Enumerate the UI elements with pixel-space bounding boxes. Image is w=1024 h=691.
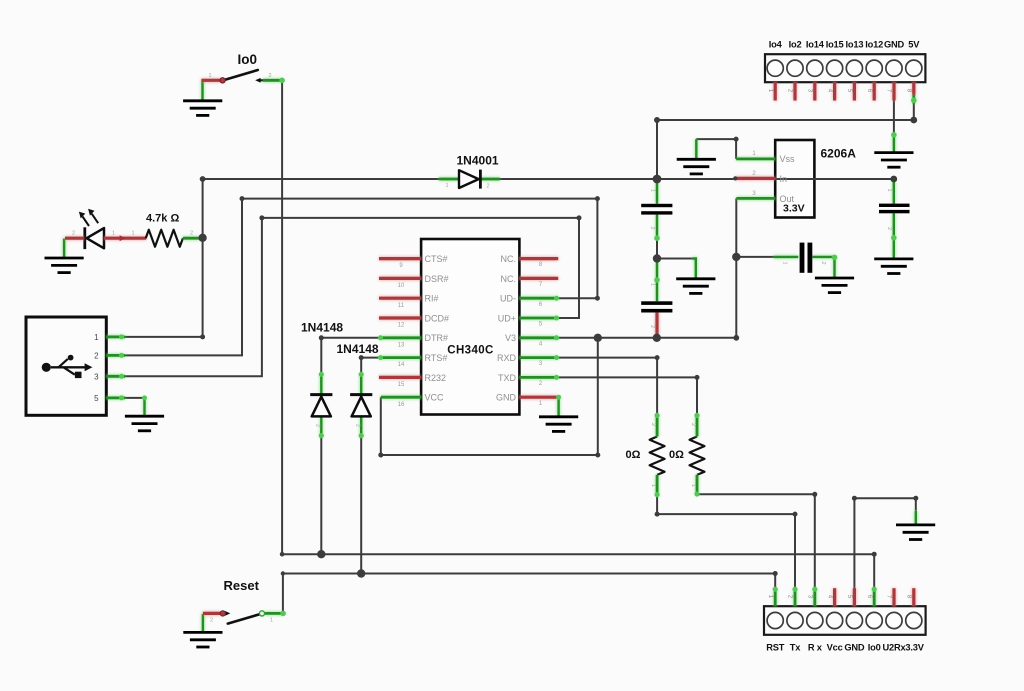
wire bottom GND: header pin5 up to ground symbol [854, 498, 915, 589]
bendpoint UD- corner top [595, 196, 600, 201]
svg-text:1: 1 [767, 595, 774, 599]
USB J2 body [26, 317, 106, 415]
wire RXD to resistor R1 [556, 358, 657, 416]
svg-text:RXD: RXD [497, 353, 517, 363]
wire cap C4 bottom to ground [893, 213, 895, 257]
top header pin numbers 1-8 [767, 89, 913, 93]
junction node IN at C1 top [653, 175, 662, 184]
switch S2 Reset: hinge red dot [220, 611, 225, 616]
green endpoint dots diode D2 legs [319, 372, 324, 439]
svg-text:1: 1 [886, 189, 892, 192]
svg-text:1: 1 [767, 89, 774, 93]
svg-text:RST: RST [766, 643, 785, 653]
switch S2 Reset: lever [228, 614, 262, 624]
wire cap C2 top leg [656, 262, 658, 302]
green endpoint dot C1 leg [654, 235, 660, 241]
wire UD- net: USB pin2 to CH340C UD- [125, 199, 597, 356]
bendpoint GND corner right [913, 496, 918, 501]
svg-text:1: 1 [782, 262, 788, 265]
svg-text:2: 2 [649, 227, 655, 230]
wire TXD to resistor R2 [556, 377, 697, 415]
svg-text:1: 1 [131, 231, 134, 237]
svg-text:Vcc: Vcc [827, 643, 843, 653]
svg-text:2: 2 [886, 227, 892, 230]
label CH340C (IC U1) [447, 345, 494, 357]
svg-text:NC.: NC. [501, 254, 517, 264]
green endpoint dots resistor R2 legs [694, 413, 699, 497]
CH340C U1 left pin legs [379, 259, 421, 398]
svg-text:GND: GND [496, 393, 517, 403]
labels top header J1 pins [769, 40, 921, 50]
svg-text:1N4001: 1N4001 [457, 154, 499, 168]
wire cap C4 top leg [893, 181, 895, 204]
label 1N4148 (diode D3) [337, 342, 379, 356]
diode D3 1N4148: bar and triangle [350, 395, 372, 417]
resistor R2 pin numbers [690, 423, 696, 487]
wire cap C3 left leg [774, 256, 799, 258]
svg-text:0Ω: 0Ω [626, 449, 641, 461]
green endpoint dots CH340C DTR RTS stubs [378, 335, 383, 360]
bendpoint Rx corner [812, 492, 817, 497]
label Io0 (switch S1) [238, 52, 258, 67]
wire VBUS vertical: node to USB pin1 [125, 179, 203, 337]
switch S1 Io0: pin1 red leg [201, 79, 221, 82]
svg-text:In: In [780, 174, 788, 184]
bendpoint R1 bottom corner [655, 512, 660, 517]
svg-text:3.3V: 3.3V [905, 643, 924, 653]
CH340C U1 right pin legs [519, 259, 558, 398]
svg-text:Io14: Io14 [806, 40, 825, 50]
green endpoint dot header pin7 wire [891, 132, 897, 138]
wire Io0 switch pin1 to ground [201, 81, 203, 100]
LED D1: emission arrows [79, 209, 98, 226]
svg-text:2: 2 [486, 184, 489, 190]
USB J2 pin legs (green) [106, 337, 125, 398]
label 3.3V (regulator output) [783, 203, 805, 215]
resistor R1 legs (green) [656, 415, 659, 496]
cap C2 pin numbers [649, 283, 656, 328]
bendpoint VCC loop left [378, 453, 383, 458]
svg-text:7: 7 [886, 89, 893, 93]
green endpoint dot USB pin5 corner [142, 395, 147, 400]
svg-text:8: 8 [906, 595, 913, 599]
svg-text:3: 3 [807, 89, 814, 93]
wire LED pin1 to resistor R3 (red) [104, 235, 146, 241]
svg-text:GND: GND [844, 643, 865, 653]
svg-text:Io0: Io0 [238, 52, 258, 67]
switch S2 Reset: pin2 red leg [203, 612, 221, 615]
svg-text:1: 1 [650, 283, 656, 286]
CH340C right pin numbers 8-1 [539, 262, 543, 407]
wire Reset switch pin2 to ground [202, 614, 204, 632]
svg-text:NC.: NC. [501, 274, 517, 284]
junction IN at cap C4 [890, 176, 897, 183]
label Reset (switch S2) [224, 578, 260, 593]
svg-text:R x: R x [808, 643, 823, 653]
svg-text:16: 16 [398, 402, 405, 408]
green endpoint dot header pin8 [911, 98, 917, 104]
svg-text:RI#: RI# [425, 294, 439, 304]
bendpoint Io0 net left end [280, 552, 285, 557]
svg-text:2: 2 [690, 423, 696, 426]
regulator U2 pin2 In red leg [735, 177, 775, 180]
cap C3 pin numbers [782, 262, 827, 265]
svg-text:5: 5 [846, 89, 853, 93]
regulator U2 pin numbers [752, 151, 756, 197]
resistor R3 pin2 green leg [183, 237, 200, 240]
wire CH340C GND pin to ground [557, 397, 559, 416]
svg-text:2: 2 [190, 231, 193, 237]
bendpoint DTR diode corner [319, 335, 324, 340]
svg-text:2: 2 [650, 423, 656, 426]
bendpoint 3V3 corner lower [733, 335, 739, 341]
green endpoint dots bottom header legs [773, 587, 877, 592]
svg-text:Io12: Io12 [865, 40, 883, 50]
LED D1: triangle [87, 228, 104, 248]
svg-text:2: 2 [315, 424, 321, 427]
cap C2 plates [641, 301, 672, 312]
bendpoint TXD corner [695, 375, 700, 380]
label 4.7k ohm (resistor R3) [146, 213, 179, 225]
header J1 pin leg 8 (5V) [912, 82, 915, 103]
junction V3 net at VCC loop [594, 334, 602, 342]
svg-text:CH340C: CH340C [447, 345, 494, 357]
bendpoint Tx corner [793, 512, 798, 517]
bendpoint UD- corner left [240, 196, 245, 201]
bendpoint RXD corner [655, 355, 660, 360]
switch S1 Io0: pin2 arrow [255, 78, 265, 83]
cap C4 pin numbers [886, 189, 892, 231]
CH340C left pin numbers 9-16 [398, 263, 405, 408]
svg-text:2: 2 [787, 595, 794, 599]
wire cap C1 bottom to node [656, 215, 658, 259]
svg-text:GND: GND [884, 40, 905, 50]
bendpoint RTS diode corner [359, 355, 364, 360]
green endpoint dot Reset switch corner [280, 611, 286, 617]
svg-text:CTS#: CTS# [425, 254, 448, 264]
svg-text:5: 5 [94, 394, 99, 403]
red leg cap C2 bottom [655, 313, 658, 336]
green endpoint dots diode D3 legs [359, 372, 364, 439]
svg-text:Io2: Io2 [789, 40, 802, 50]
bendpoint In leg start [733, 176, 737, 180]
CH340C left pin labels [425, 254, 450, 403]
LED D1: pin2 red leg (left) [65, 237, 84, 240]
green endpoint dots resistor R1 legs [655, 413, 660, 498]
bendpoint GND corner left [852, 496, 857, 501]
label 0 ohm (resistor R1) [626, 449, 641, 461]
switch S2 Reset: pin1 green hinge circle [259, 611, 264, 616]
svg-text:6206A: 6206A [821, 147, 857, 161]
svg-text:Vss: Vss [780, 154, 796, 164]
svg-text:5V: 5V [908, 40, 920, 50]
ground left of LED [45, 258, 84, 273]
cap C4 plates [879, 204, 910, 214]
label 1N4148 (diode D2) [301, 321, 343, 335]
svg-text:1: 1 [270, 618, 273, 624]
bendpoint Io0 net right corner [872, 552, 877, 557]
svg-text:RTS#: RTS# [425, 353, 448, 363]
wire V3 net: CH340C V3 to 3.3V Out node [556, 257, 736, 338]
resistor R3 4.7k zigzag [146, 230, 183, 247]
svg-text:U2Rx: U2Rx [883, 643, 907, 653]
bottom header pin numbers 1-8 [767, 595, 913, 599]
svg-text:UD-: UD- [500, 294, 516, 304]
bendpoint VCC loop right [595, 453, 600, 458]
switch S1 Io0: hinge [220, 78, 225, 83]
header J3 pin legs [775, 588, 914, 606]
bendpoint 5V corner [654, 117, 660, 123]
bendpoint Vss wire [734, 137, 739, 142]
LED D1: cathode bar [83, 227, 86, 249]
green endpoint dot C3 corner [832, 255, 838, 261]
wire VCC loop: CH340C VCC down and right up to V3 net [381, 338, 598, 455]
junction node VBUS at resistor R3 [198, 234, 206, 242]
cap C1 plates [641, 204, 672, 215]
svg-text:2: 2 [649, 325, 655, 328]
USB J2 trident icon [42, 355, 93, 378]
switch S2 Reset: pin1 green leg [265, 612, 284, 615]
svg-text:1: 1 [208, 73, 211, 79]
wire Reset net: switch pin1 up, across to header pin1 RST [283, 574, 775, 613]
green endpoint dots USB legs [119, 334, 124, 400]
ground under header GND pin7 [874, 153, 913, 168]
svg-text:8: 8 [906, 89, 913, 93]
svg-text:Io15: Io15 [826, 40, 844, 50]
svg-text:1N4148: 1N4148 [301, 321, 343, 335]
svg-text:2: 2 [210, 618, 213, 624]
wire Out leg riser: regulator Out down to 3.3V node [735, 198, 737, 257]
wire LED cathode to ground [63, 239, 65, 257]
junction node below C1 [653, 254, 661, 262]
junction 5V at header pin8 [910, 117, 917, 124]
header J1 pin legs 1-7 (red) [775, 82, 894, 100]
svg-text:1: 1 [650, 189, 656, 192]
svg-text:4: 4 [826, 595, 833, 599]
svg-text:2: 2 [820, 262, 826, 265]
ground bottom right [896, 525, 935, 540]
ground under cap C4 [874, 259, 913, 274]
svg-text:0Ω: 0Ω [669, 449, 684, 461]
wire regulator Vss to ground [696, 139, 736, 159]
cap C3 plates [800, 243, 813, 273]
wire 5V net: header pin8 down-left to node IN [657, 103, 914, 179]
bendpoint VBUS top corner [200, 176, 206, 182]
CH340C right pin labels [496, 254, 517, 403]
bendpoint UD- corner bottom [595, 296, 600, 301]
ground under cap C3 [815, 278, 854, 293]
bendpoint UD+ corner top right [577, 215, 582, 220]
svg-text:R232: R232 [425, 373, 447, 383]
wire R1 bottom to header pin2 Tx [657, 495, 795, 589]
bendpoint Reset corner left [281, 571, 285, 575]
resistor R2 legs (green) [696, 415, 699, 495]
svg-text:6: 6 [866, 595, 873, 599]
resistor R1 pin numbers [650, 423, 656, 487]
svg-text:14: 14 [398, 362, 405, 368]
wire node to ground (right of C1) [657, 259, 696, 278]
junction diode D3 on Reset net [357, 569, 365, 577]
header J3 bottom body [764, 606, 926, 635]
svg-text:3: 3 [807, 595, 814, 599]
wire UD+ net: USB pin3 to CH340C UD+ [125, 218, 579, 376]
ground under regulator Vss [677, 159, 716, 174]
switch S2 Reset: pin2 arrow [223, 611, 230, 616]
green endpoint dot CH340C GND corner [556, 395, 561, 400]
switch S2 pin numbers [210, 618, 273, 624]
switch S1 pin numbers [208, 73, 271, 79]
LED D1 pin numbers [72, 231, 193, 237]
svg-text:2: 2 [268, 73, 271, 79]
svg-text:13: 13 [398, 342, 405, 348]
svg-text:1: 1 [690, 484, 696, 487]
green endpoint dot Io0 switch corner [279, 78, 285, 84]
diode D2 pin number [315, 424, 321, 427]
regulator U2 pin3 Out green leg [736, 197, 775, 200]
regulator U2 pin labels [780, 154, 796, 204]
svg-text:VCC: VCC [425, 393, 445, 403]
USB J2 pin numbers [94, 333, 99, 403]
resistor R2 0 ohm zigzag [690, 437, 705, 475]
svg-text:1N4148: 1N4148 [337, 342, 379, 356]
svg-text:Io13: Io13 [845, 40, 863, 50]
svg-text:10: 10 [398, 283, 405, 289]
svg-text:TXD: TXD [498, 373, 517, 383]
wire cap C3 right leg to ground [813, 257, 835, 277]
ground under CH340C GND [539, 417, 578, 432]
wire R2 bottom to header pin3 Rx [697, 494, 815, 589]
svg-text:Io4: Io4 [769, 40, 783, 50]
svg-text:UD+: UD+ [498, 313, 516, 323]
bendpoint RST corner [773, 571, 778, 576]
ground under USB pin5 [125, 416, 164, 431]
svg-text:DTR#: DTR# [425, 333, 449, 343]
svg-text:5: 5 [846, 595, 853, 599]
labels bottom header J3 pins [766, 643, 925, 653]
junction node 3V3 at Out riser [732, 253, 740, 261]
svg-text:2: 2 [355, 424, 361, 427]
wire 3.3V node to cap C3 [736, 256, 773, 258]
svg-text:3: 3 [94, 372, 99, 381]
wire USB pin5 to ground [125, 398, 145, 415]
green endpoint dots CH340C right stubs [554, 296, 559, 380]
cap C1 pin numbers [649, 189, 656, 230]
label 6206A (regulator U2) [821, 147, 857, 161]
diode D4 1N4001: legs [439, 178, 500, 181]
junction diode D2 on Io0 net [317, 550, 325, 558]
label 1N4001 (diode D4) [457, 154, 499, 168]
svg-text:15: 15 [398, 382, 405, 388]
regulator U2 pin1 Vss green leg [736, 157, 775, 160]
svg-text:1: 1 [112, 231, 115, 237]
wire cap C1 top leg [656, 183, 658, 204]
diode D3 pin number [355, 424, 361, 427]
header J1 top body [765, 54, 925, 82]
wire Io0 net: switch pin2 down, across to header pin6 [282, 81, 874, 589]
junction V3 net at C2 [653, 334, 661, 342]
regulator U2 6206A body [775, 140, 814, 218]
svg-text:DCD#: DCD# [425, 313, 450, 323]
svg-text:2: 2 [94, 351, 99, 360]
svg-text:4: 4 [826, 89, 833, 93]
wire IN net horizontal: VBUS node to regulator In and right cap C4 [203, 178, 894, 180]
svg-text:1: 1 [445, 183, 448, 189]
svg-text:2: 2 [72, 231, 75, 237]
svg-text:Tx: Tx [790, 643, 801, 653]
wire diode D3 bottom to Reset net [360, 417, 362, 574]
ground under Io0 switch [183, 101, 222, 116]
CH340C U1 body [421, 239, 519, 415]
svg-text:DSR#: DSR# [425, 274, 449, 284]
resistor R1 0 ohm zigzag [650, 437, 665, 475]
diode D4 pin numbers [445, 183, 489, 190]
green endpoint dot C2 leg [654, 277, 660, 283]
svg-text:12: 12 [398, 323, 405, 329]
svg-text:6: 6 [866, 89, 873, 93]
svg-text:3.3V: 3.3V [783, 203, 805, 215]
label 0 ohm (resistor R2) [669, 449, 684, 461]
wire header GND pin7 down to ground [893, 101, 895, 152]
svg-text:1: 1 [94, 333, 99, 342]
svg-text:4.7k Ω: 4.7k Ω [146, 213, 179, 225]
bendpoint UD+ corner left [259, 215, 264, 220]
svg-text:Reset: Reset [224, 578, 260, 593]
wire diode D3 top to RTS# [361, 358, 379, 395]
svg-text:Io0: Io0 [868, 643, 881, 653]
diode D4 1N4001: triangle and bar [459, 170, 480, 189]
svg-text:1: 1 [650, 484, 656, 487]
bendpoint USB pin1 corner [200, 334, 205, 339]
svg-text:2: 2 [787, 89, 794, 93]
svg-text:V3: V3 [505, 333, 516, 343]
ground under Reset switch [183, 632, 222, 647]
wire diode D2 top to DTR# [321, 338, 379, 395]
svg-text:11: 11 [398, 303, 405, 309]
switch S1 Io0: lever [223, 70, 257, 80]
diode D2 1N4148: bar and triangle [310, 395, 332, 417]
svg-text:7: 7 [886, 595, 893, 599]
switch S1 Io0: pin2 green leg [263, 79, 282, 82]
wire diode D2 bottom to Io0 net [320, 417, 322, 554]
green endpoint dot C4 leg [891, 235, 897, 241]
ground below C1 node [676, 279, 715, 294]
